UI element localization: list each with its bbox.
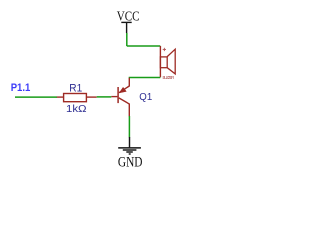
wire buzzer bottom to emitter (129, 77, 161, 79)
transistor Q1 emitter arrow (119, 87, 126, 93)
transistor Q1 collector lead (119, 98, 130, 117)
svg-text:Q1: Q1 (139, 92, 152, 103)
wire collector to ground (128, 116, 130, 137)
resistor R1 left pin (57, 96, 64, 98)
terminal label P1.1 (11, 82, 31, 94)
wire VCC vertical (126, 33, 128, 46)
resistor R1 body (64, 94, 87, 102)
wire R1 to Q1 base (97, 96, 112, 98)
label Q1 (139, 92, 152, 103)
svg-text:R1: R1 (69, 82, 82, 94)
ground symbol (118, 137, 141, 154)
wire P1.1 to R1 (15, 96, 57, 98)
wire VCC to buzzer top (127, 45, 161, 47)
svg-text:GND: GND (118, 154, 143, 169)
svg-text:BUZZER: BUZZER (163, 75, 175, 80)
label VCC (117, 9, 140, 24)
resistor R1 right pin (86, 96, 96, 98)
svg-text:P1.1: P1.1 (11, 82, 31, 94)
buzzer plus sign (163, 48, 166, 51)
value 1kΩ (66, 104, 87, 115)
transistor Q1 base pin (111, 96, 117, 98)
svg-text:1kΩ: 1kΩ (66, 104, 87, 115)
label GND (118, 154, 143, 169)
transistor Q1 emitter lead (119, 78, 129, 93)
label R1 (69, 82, 82, 94)
power symbol VCC (121, 22, 131, 33)
buzzer LS1 body (160, 49, 175, 74)
svg-text:VCC: VCC (117, 9, 140, 24)
transistor Q1 base bar (117, 87, 119, 103)
buzzer LS1 pin line (159, 46, 161, 77)
